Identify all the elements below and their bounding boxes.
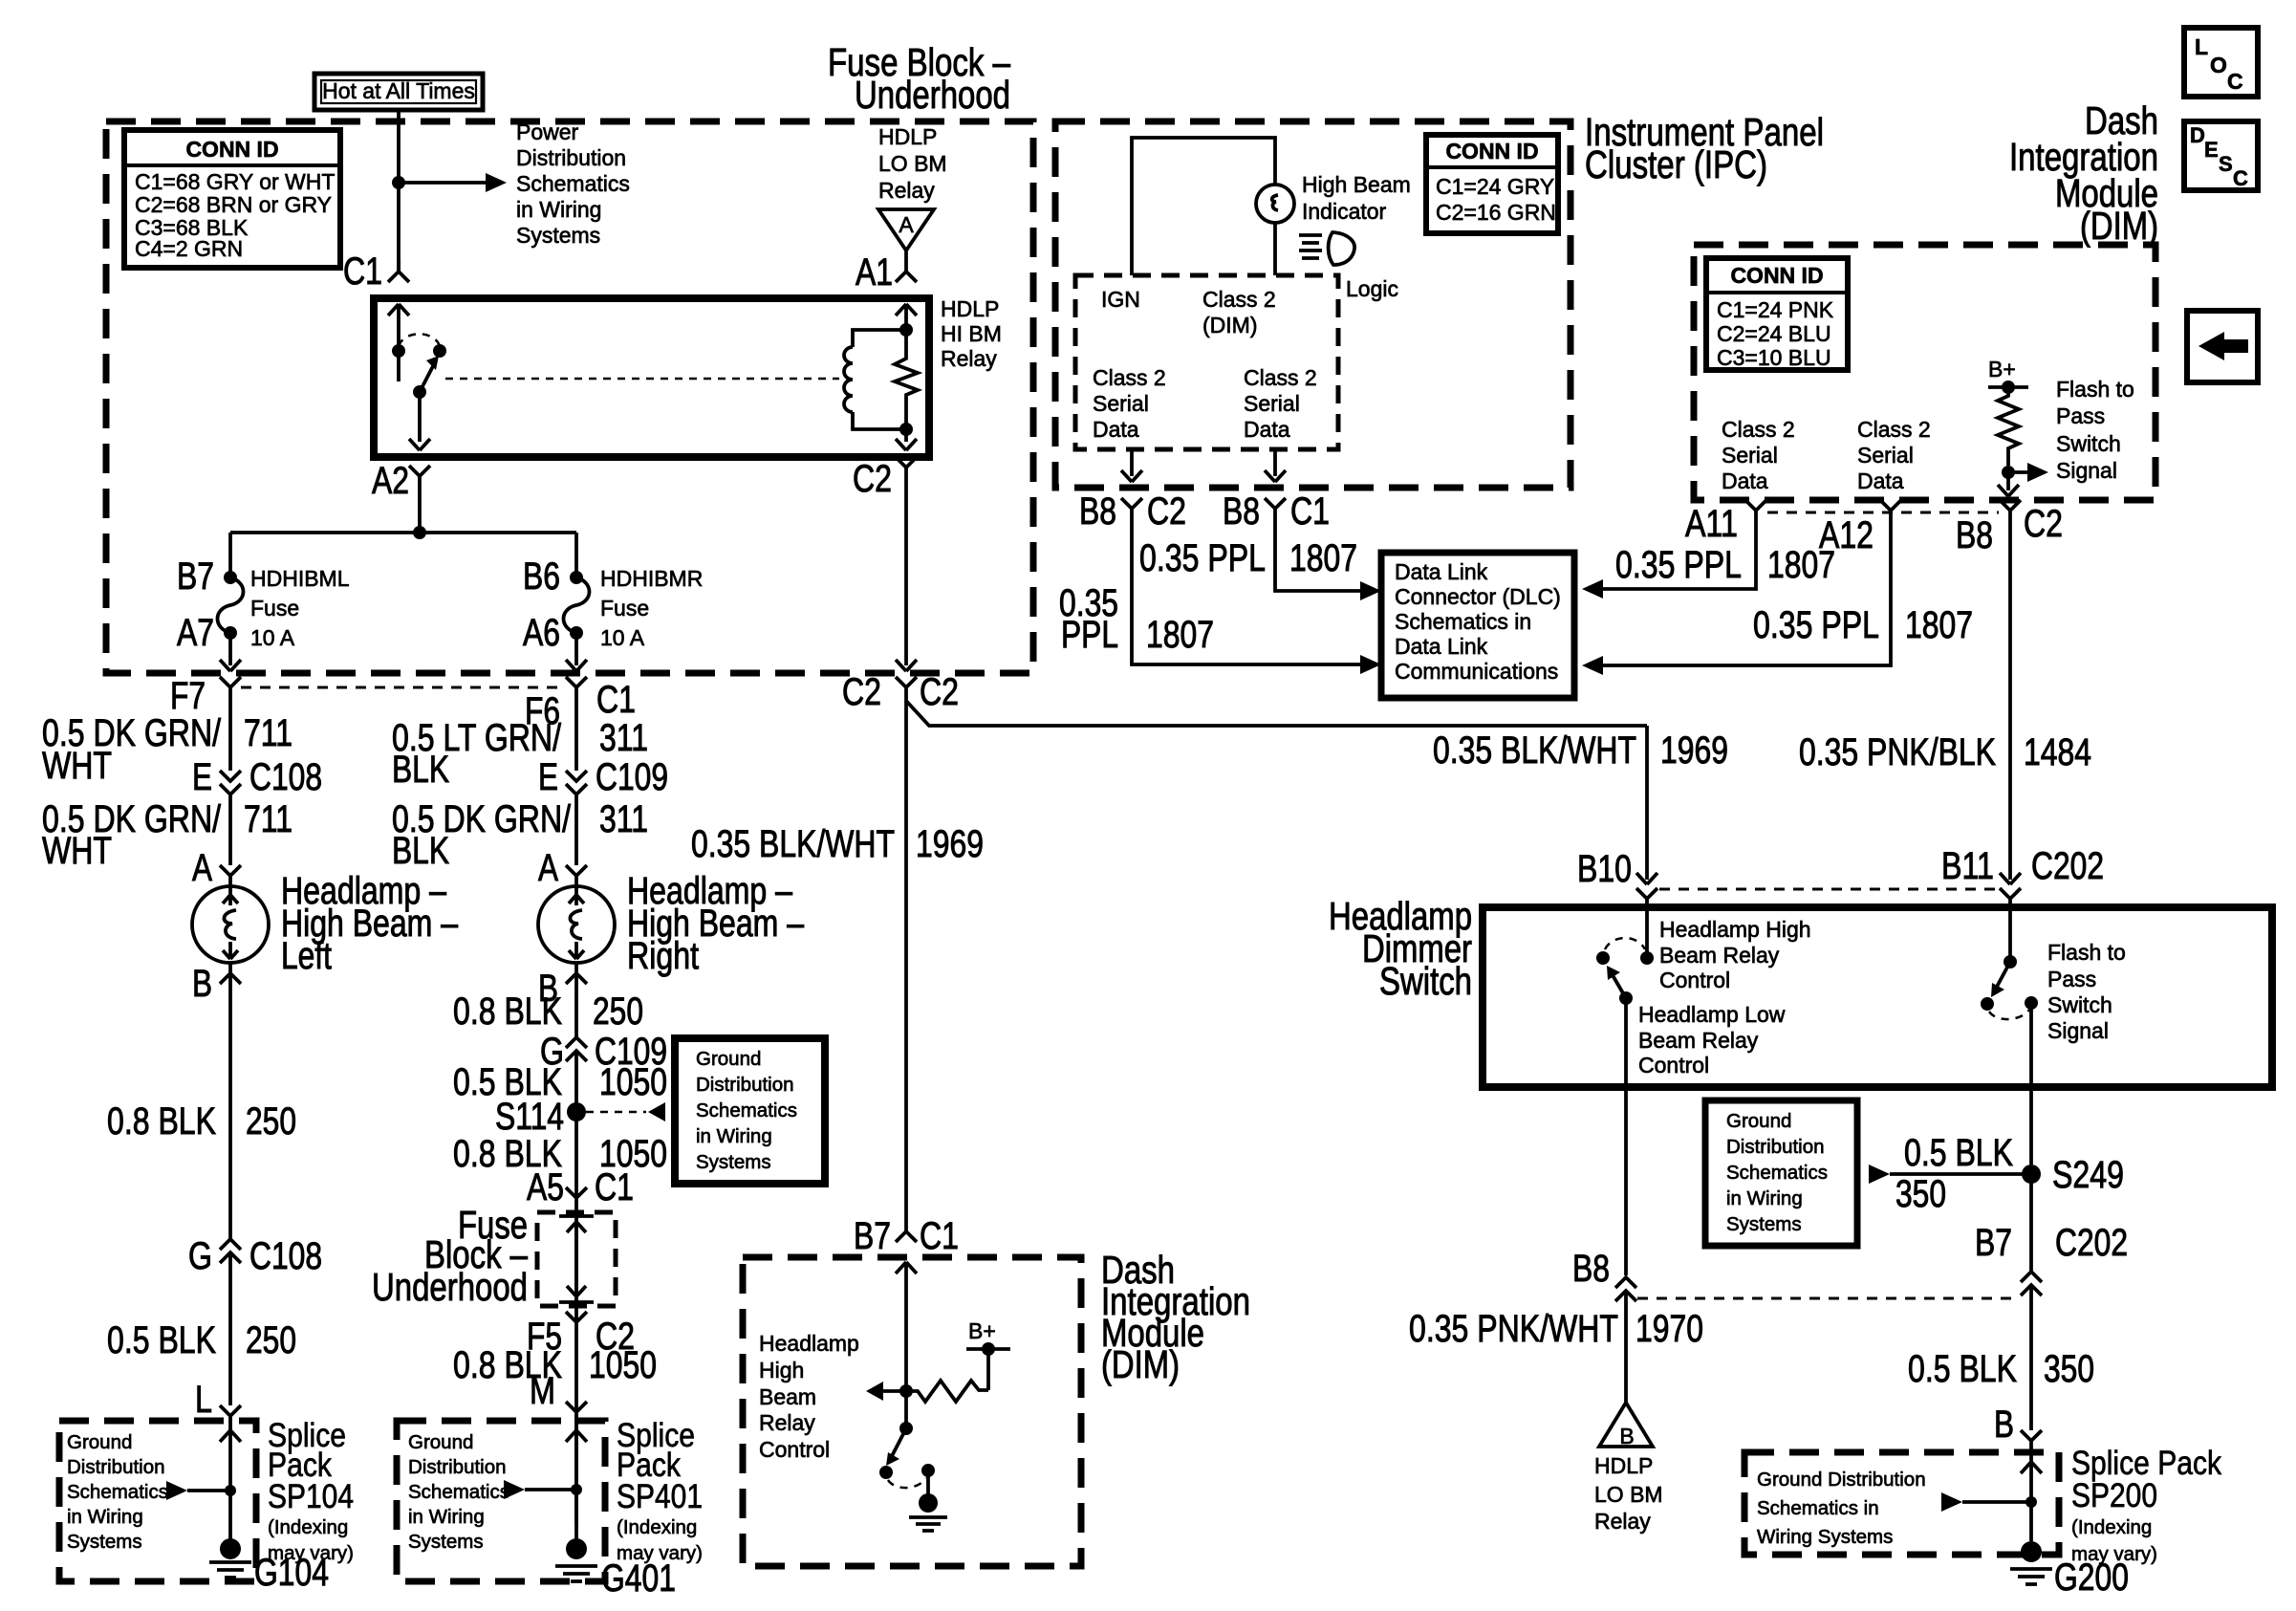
wire down to fuse HDHIBML: [228, 533, 232, 577]
internal ground (DIM): [919, 1493, 938, 1513]
fuse HDHIBMR top dot B6: [570, 571, 583, 584]
svg-text:BLK: BLK: [392, 749, 449, 791]
svg-text:(Indexing: (Indexing: [2071, 1516, 2152, 1538]
svg-text:SP200: SP200: [2071, 1477, 2157, 1514]
svg-text:Left: Left: [281, 935, 332, 977]
svg-text:Class 2: Class 2: [1202, 287, 1276, 312]
resistor flash-to-pass: [1998, 387, 2019, 466]
svg-text:Schematics: Schematics: [408, 1481, 509, 1503]
svg-text:Distribution: Distribution: [67, 1456, 165, 1478]
svg-text:Fuse: Fuse: [600, 596, 649, 620]
svg-text:Communications: Communications: [1395, 659, 1558, 684]
icon high beam symbol: [1299, 235, 1322, 258]
dashed link S114 to reference box: [586, 1111, 646, 1114]
svg-text:Relay: Relay: [941, 346, 997, 371]
connector fork A2: [409, 466, 430, 533]
switch arm (DIM): [892, 1428, 906, 1456]
wire from Hot at All Times down to relay C1: [397, 108, 401, 272]
flash-to-pass right contact dot: [2025, 996, 2038, 1010]
dimmer high-beam contact wire: [1645, 907, 1649, 958]
module box Dash Integration Module bottom (dashed): [743, 1257, 1081, 1566]
fuse feed junction dot: [413, 526, 426, 539]
svg-text:350: 350: [2044, 1348, 2094, 1390]
connector fork B11: [2000, 873, 2021, 907]
svg-text:Logic: Logic: [1346, 276, 1398, 301]
svg-text:BLK: BLK: [392, 830, 449, 872]
splice junction dot SP200: [2025, 1496, 2037, 1508]
switch pivot dot (DIM): [899, 1422, 913, 1435]
svg-text:0.8 BLK: 0.8 BLK: [453, 991, 562, 1033]
svg-text:0.35 PPL: 0.35 PPL: [1615, 544, 1742, 586]
wire into splice pack SP401: [566, 1421, 587, 1549]
junction dot on control wire: [899, 1384, 913, 1398]
svg-text:C4=2 GRN: C4=2 GRN: [135, 236, 243, 261]
svg-text:(Indexing: (Indexing: [617, 1516, 697, 1538]
svg-text:Connector (DLC): Connector (DLC): [1395, 584, 1561, 609]
svg-text:C1: C1: [595, 1166, 634, 1208]
wire fuse HDHIBML to border: [220, 633, 241, 671]
dimmer left contact dot: [1596, 951, 1610, 965]
svg-text:Serial: Serial: [1857, 443, 1914, 468]
svg-text:SP104: SP104: [268, 1478, 354, 1515]
connector fork A (right): [566, 865, 587, 886]
svg-text:0.35 BLK/WHT: 0.35 BLK/WHT: [691, 823, 895, 865]
svg-text:1970: 1970: [1635, 1308, 1703, 1350]
wire bulb to Class 2 pin: [1273, 223, 1277, 275]
svg-text:C109: C109: [596, 756, 668, 798]
svg-text:Beam Relay: Beam Relay: [1638, 1028, 1759, 1053]
svg-text:Ground: Ground: [408, 1431, 473, 1453]
off-page triangle B HDLP LO BM Relay: [1599, 1403, 1653, 1447]
svg-text:Ground: Ground: [67, 1431, 132, 1453]
fuse HDHIBMR bottom dot A6: [570, 626, 583, 640]
svg-text:10 A: 10 A: [600, 625, 645, 650]
wire B down to C108 (ground side): [228, 973, 232, 1239]
svg-text:C: C: [2233, 166, 2248, 190]
svg-text:M: M: [530, 1370, 555, 1412]
connector fork F6: [566, 677, 587, 701]
connector fork B: [220, 963, 241, 984]
connector table CONN ID (fuse block): [124, 130, 340, 268]
svg-text:Data: Data: [1244, 417, 1290, 442]
svg-text:may vary): may vary): [617, 1542, 703, 1564]
svg-text:Flash to: Flash to: [2047, 940, 2126, 965]
svg-text:Schematics: Schematics: [696, 1099, 797, 1121]
svg-text:B8: B8: [1956, 514, 1993, 556]
svg-text:C2: C2: [1147, 490, 1186, 533]
svg-text:10 A: 10 A: [250, 625, 295, 650]
label box Hot at All Times: [314, 74, 483, 110]
wire to switch pivot: [904, 1391, 908, 1428]
svg-text:Pass: Pass: [2056, 403, 2105, 428]
svg-text:C202: C202: [2031, 845, 2104, 887]
relay switch movable arm: [420, 364, 434, 392]
wire into splice pack SP104: [220, 1421, 241, 1549]
component box HDLP HI BM Relay: [374, 298, 929, 457]
svg-text:Systems: Systems: [516, 223, 600, 248]
svg-text:C2: C2: [842, 671, 881, 713]
in-line connector C202 (B7): [2021, 1272, 2042, 1430]
svg-text:Headlamp: Headlamp: [759, 1331, 859, 1356]
connector fork A12: [1880, 500, 1901, 524]
svg-text:CONN ID: CONN ID: [1445, 139, 1538, 163]
svg-text:may vary): may vary): [2071, 1543, 2157, 1565]
svg-text:C2: C2: [2024, 503, 2063, 545]
svg-text:Schematics in: Schematics in: [1757, 1497, 1879, 1519]
connector fork A11: [1745, 500, 1766, 524]
component box Headlamp Dimmer Switch: [1483, 907, 2272, 1087]
relay switch output wire to A2: [409, 392, 430, 450]
svg-text:Relay: Relay: [878, 178, 935, 203]
wire B down to C109 ground side: [574, 973, 578, 1037]
svg-text:Cluster (IPC): Cluster (IPC): [1585, 142, 1767, 186]
dimmer dashed arc: [1605, 938, 1645, 949]
svg-text:L: L: [2195, 34, 2208, 59]
svg-text:F7: F7: [170, 675, 206, 717]
svg-text:311: 311: [599, 717, 648, 759]
svg-text:High: High: [759, 1358, 804, 1382]
flash-to-pass arm: [1997, 962, 2010, 987]
svg-text:Control: Control: [759, 1437, 830, 1462]
reference box Ground Distribution SP104 (dashed): [59, 1421, 256, 1581]
reference box Ground Distribution (S114): [675, 1038, 825, 1184]
in-line connector C202 (B8): [1615, 1277, 1636, 1403]
svg-text:Hot at All Times: Hot at All Times: [322, 78, 475, 103]
svg-text:0.5 BLK: 0.5 BLK: [107, 1319, 216, 1361]
svg-text:Data Link: Data Link: [1395, 559, 1488, 584]
svg-text:Switch: Switch: [2056, 431, 2121, 456]
svg-text:E: E: [192, 756, 212, 798]
svg-text:LO BM: LO BM: [1594, 1482, 1663, 1507]
in-line connector C109 (G): [566, 1037, 587, 1523]
svg-text:Right: Right: [627, 935, 699, 977]
svg-text:A: A: [192, 847, 212, 889]
svg-text:0.5 BLK: 0.5 BLK: [1908, 1348, 2017, 1390]
svg-text:Headlamp High: Headlamp High: [1659, 917, 1811, 942]
svg-text:B8: B8: [1079, 490, 1116, 533]
wire into DIM with up arrow: [896, 1262, 917, 1391]
connector fork C2 (DIM): [2000, 500, 2021, 524]
svg-text:C1: C1: [1290, 490, 1330, 533]
svg-text:Fuse: Fuse: [250, 596, 299, 620]
connector dashed line C202 (dimmer top): [1659, 888, 1998, 891]
svg-text:HDLP: HDLP: [878, 124, 937, 149]
relay coil resistor: [895, 330, 918, 429]
relay coil top dot: [899, 323, 913, 337]
svg-text:C108: C108: [249, 1235, 322, 1277]
svg-text:(DIM): (DIM): [2080, 204, 2158, 248]
relay switch fixed contact dot (left): [392, 344, 405, 358]
svg-text:B+: B+: [968, 1318, 996, 1343]
relay coil parallel loop: [853, 330, 906, 429]
reference box Ground Distribution SP401 (dashed): [397, 1421, 605, 1581]
wire arrow to Power Distribution reference: [399, 181, 493, 185]
icon box LOC: [2184, 28, 2258, 97]
svg-text:1969: 1969: [1660, 729, 1728, 772]
svg-text:Headlamp Low: Headlamp Low: [1638, 1002, 1786, 1027]
connector fork F7: [220, 677, 241, 701]
svg-text:E: E: [538, 756, 558, 798]
svg-text:WHT: WHT: [42, 830, 112, 872]
svg-text:B7: B7: [854, 1215, 891, 1257]
svg-text:Ground Distribution: Ground Distribution: [1757, 1469, 1926, 1491]
connector fork A: [220, 865, 241, 886]
svg-text:Schematics: Schematics: [516, 171, 630, 196]
svg-text:B11: B11: [1941, 845, 1994, 887]
svg-text:B8: B8: [1223, 490, 1260, 533]
svg-text:C2=24 BLU: C2=24 BLU: [1717, 321, 1831, 346]
svg-text:WHT: WHT: [42, 745, 112, 787]
svg-text:C2=68 BRN or GRY: C2=68 BRN or GRY: [135, 192, 332, 217]
relay coil bumps: [844, 347, 853, 412]
svg-text:Wiring Systems: Wiring Systems: [1757, 1526, 1893, 1548]
relay switch pivot dot: [413, 385, 426, 399]
svg-text:C1: C1: [596, 679, 636, 721]
svg-text:711: 711: [244, 712, 292, 754]
relay switch input arrow (C1 side): [388, 304, 409, 381]
svg-text:(Indexing: (Indexing: [268, 1516, 348, 1538]
fuse HDHIBMR element: [564, 577, 590, 633]
svg-text:B6: B6: [523, 555, 560, 598]
flash-to-pass input wire: [2008, 907, 2012, 962]
svg-text:HDLP: HDLP: [941, 296, 999, 321]
svg-text:1484: 1484: [2024, 731, 2091, 773]
svg-text:Relay: Relay: [1594, 1509, 1651, 1534]
module box Fuse Block Underhood (dashed): [106, 121, 1033, 673]
svg-text:O: O: [2210, 53, 2227, 77]
svg-text:Distribution: Distribution: [408, 1456, 507, 1478]
reference box Splice Pack SP200 (dashed): [1744, 1452, 2059, 1555]
wire fuse feed horizontal: [230, 531, 576, 534]
module box Instrument Panel Cluster (dashed): [1055, 121, 1570, 488]
svg-text:A2: A2: [372, 460, 409, 502]
flash-to-pass pivot dot: [2004, 955, 2017, 969]
pass-through box Fuse Block Underhood (small, dashed): [537, 1212, 616, 1306]
svg-text:Systems: Systems: [67, 1531, 142, 1553]
svg-text:C108: C108: [249, 756, 322, 798]
svg-text:Serial: Serial: [1722, 443, 1778, 468]
svg-text:711: 711: [244, 798, 292, 840]
wire flash-to-pass to border: [1998, 472, 2019, 496]
connector dashed line C202 (lower): [1637, 1297, 2020, 1300]
svg-text:1807: 1807: [1767, 544, 1835, 586]
svg-text:Data Link: Data Link: [1395, 634, 1488, 659]
relay coil input arrow (A1 side): [896, 304, 917, 330]
reference box Data Link Connector (DLC): [1381, 553, 1574, 698]
svg-text:S: S: [2219, 152, 2233, 176]
off-page arrow into SP104 splice: [166, 1481, 187, 1500]
svg-text:G: G: [188, 1235, 212, 1277]
high beam indicator bulb: [1256, 185, 1294, 223]
fuse HDHIBML bottom dot A7: [224, 626, 237, 640]
arrow right flash-to-pass: [2008, 470, 2037, 474]
arrow out left: [874, 1389, 906, 1393]
svg-text:1969: 1969: [916, 823, 984, 865]
svg-text:(DIM): (DIM): [1202, 313, 1257, 337]
svg-text:SP401: SP401: [617, 1478, 703, 1515]
relay switch dashed arc between contacts: [399, 334, 440, 346]
svg-text:Data: Data: [1722, 468, 1768, 493]
in-line connector C108 (E): [220, 771, 241, 865]
svg-text:E: E: [2204, 138, 2219, 162]
svg-text:D: D: [2190, 123, 2205, 147]
svg-text:C202: C202: [2055, 1222, 2128, 1264]
wire S249 down to C202: [2029, 1174, 2033, 1272]
svg-text:HDHIBMR: HDHIBMR: [600, 566, 703, 591]
svg-text:Ground: Ground: [1726, 1110, 1791, 1132]
connector fork C2 below relay: [896, 457, 917, 468]
svg-text:0.8 BLK: 0.8 BLK: [107, 1100, 216, 1143]
ground G401: [566, 1538, 587, 1559]
svg-text:Schematics: Schematics: [1726, 1162, 1828, 1184]
connector fork L: [220, 1405, 241, 1421]
svg-text:S114: S114: [495, 1096, 564, 1138]
relay switch NO contact dot (right): [433, 344, 446, 358]
connector fork C1: [388, 258, 409, 282]
svg-text:C1=24 GRY: C1=24 GRY: [1436, 174, 1554, 199]
svg-text:Systems: Systems: [1726, 1213, 1802, 1235]
dimmer switch pivot dot: [1619, 991, 1633, 1005]
svg-text:1050: 1050: [589, 1344, 657, 1386]
svg-text:311: 311: [599, 798, 648, 840]
svg-text:HDLP: HDLP: [1594, 1453, 1653, 1478]
svg-text:A7: A7: [177, 612, 214, 654]
svg-text:Schematics: Schematics: [67, 1481, 168, 1503]
svg-text:L: L: [195, 1379, 212, 1421]
svg-text:CONN ID: CONN ID: [1730, 263, 1823, 288]
headlamp bulb Headlamp High Beam Right: [538, 886, 615, 963]
svg-text:Data: Data: [1857, 468, 1904, 493]
flash-to-pass dashed arc: [1989, 1010, 2029, 1019]
relay coil bottom dot: [899, 423, 913, 436]
wire IPC serial data left to border: [1121, 449, 1142, 482]
svg-text:0.35 PPL: 0.35 PPL: [1139, 537, 1266, 579]
svg-text:Systems: Systems: [408, 1531, 484, 1553]
reference box Ground Distribution (S249): [1705, 1100, 1857, 1246]
svg-text:S249: S249: [2052, 1154, 2124, 1196]
splice S114 dot: [567, 1102, 586, 1121]
svg-text:may vary): may vary): [268, 1542, 354, 1564]
svg-text:B10: B10: [1577, 848, 1632, 890]
svg-text:250: 250: [246, 1100, 296, 1143]
svg-text:C2: C2: [853, 458, 892, 500]
connector fork A1: [896, 272, 917, 282]
svg-text:CONN ID: CONN ID: [185, 137, 278, 162]
splice S249 dot: [2022, 1165, 2041, 1184]
svg-text:Distribution: Distribution: [696, 1074, 794, 1096]
svg-text:B: B: [192, 963, 212, 1005]
relay actuation dashed link: [445, 378, 839, 381]
svg-text:A: A: [899, 212, 914, 237]
dimmer fixed contact dot (high beam): [1640, 951, 1654, 965]
svg-text:Flash to: Flash to: [2056, 377, 2134, 402]
svg-text:C1: C1: [343, 250, 382, 293]
svg-text:C2=16 GRN: C2=16 GRN: [1436, 200, 1556, 225]
svg-text:B7: B7: [177, 555, 214, 598]
svg-text:1807: 1807: [1146, 614, 1214, 656]
svg-text:Systems: Systems: [696, 1151, 771, 1173]
svg-text:0.5 BLK: 0.5 BLK: [1904, 1132, 2013, 1174]
svg-text:350: 350: [1895, 1173, 1946, 1215]
svg-text:Serial: Serial: [1093, 391, 1149, 416]
ground G200: [2021, 1541, 2042, 1562]
svg-text:C1=68 GRY or WHT: C1=68 GRY or WHT: [135, 169, 335, 194]
connector dashed line C1 (F7-F6): [241, 686, 566, 689]
svg-text:1807: 1807: [1905, 604, 1973, 646]
connector fork B (SP200): [2021, 1430, 2042, 1452]
svg-text:B+: B+: [1988, 357, 2016, 381]
junction dot flash-to-pass: [2002, 466, 2015, 479]
svg-text:Beam: Beam: [759, 1384, 816, 1409]
svg-text:Class 2: Class 2: [1093, 365, 1166, 390]
svg-text:C1=24 PNK: C1=24 PNK: [1717, 297, 1834, 322]
flash-to-pass left contact dot: [1981, 997, 1994, 1011]
svg-text:A1: A1: [856, 251, 893, 294]
wire to internal ground: [926, 1470, 930, 1495]
connector fork B8/C2 (IPC): [1121, 498, 1142, 521]
svg-text:1807: 1807: [1289, 537, 1357, 579]
switch left contact dot: [879, 1466, 893, 1479]
svg-text:0.35 PPL: 0.35 PPL: [1753, 604, 1879, 646]
junction dot on feed wire: [392, 176, 405, 189]
svg-text:1050: 1050: [599, 1061, 667, 1103]
fuse HDHIBML element: [218, 577, 244, 633]
svg-text:Distribution: Distribution: [516, 145, 626, 170]
svg-text:B7: B7: [1975, 1222, 2012, 1264]
svg-text:Power: Power: [516, 120, 579, 144]
connector fork F5: [566, 1312, 587, 1322]
svg-text:Signal: Signal: [2056, 458, 2117, 483]
svg-text:Pass: Pass: [2047, 967, 2096, 991]
svg-text:Class 2: Class 2: [1722, 417, 1795, 442]
connector fork M: [566, 1402, 587, 1421]
svg-text:Beam Relay: Beam Relay: [1659, 943, 1780, 968]
svg-text:0.35 PNK/BLK: 0.35 PNK/BLK: [1799, 731, 1996, 773]
dimmer switch arm: [1613, 975, 1626, 998]
switch dashed arc (DIM): [888, 1478, 926, 1488]
off-page arrow into SP401 splice: [504, 1480, 525, 1499]
wire relay C2 output to border: [896, 468, 917, 671]
svg-text:Indicator: Indicator: [1302, 199, 1387, 224]
svg-text:Ground: Ground: [696, 1048, 761, 1070]
dimmer low-beam output wire: [1624, 998, 1628, 1275]
wire IPC C2 to DLC: [1132, 521, 1374, 664]
splice junction dot SP401: [571, 1484, 582, 1495]
wire IPC C1 to DLC: [1275, 521, 1374, 591]
svg-text:Relay: Relay: [759, 1410, 815, 1435]
wire B+ down: [986, 1349, 990, 1390]
headlamp bulb Headlamp High Beam Left: [192, 886, 269, 963]
svg-text:in Wiring: in Wiring: [516, 197, 601, 222]
wire branch diagonal to dimmer feed: [906, 701, 1647, 726]
wire F6 to C109: [574, 701, 578, 771]
svg-text:B: B: [1619, 1424, 1634, 1448]
svg-text:0.35 BLK/WHT: 0.35 BLK/WHT: [1433, 729, 1636, 772]
flash-to-pass output wire: [2029, 1003, 2033, 1165]
svg-text:C2: C2: [920, 671, 959, 713]
connector fork B8/C1 (IPC): [1265, 498, 1286, 521]
svg-text:A11: A11: [1685, 503, 1738, 545]
svg-text:High Beam: High Beam: [1302, 172, 1411, 197]
svg-text:Control: Control: [1638, 1053, 1709, 1078]
svg-text:PPL: PPL: [1061, 614, 1118, 656]
svg-text:in Wiring: in Wiring: [408, 1506, 485, 1528]
connector dashed line C202/C2 (DIM bottom): [1767, 512, 1999, 514]
svg-text:C1: C1: [920, 1215, 959, 1257]
off-page arrow into SP200 splice: [1941, 1492, 1962, 1512]
pass-through wire with arrows: [559, 1216, 594, 1302]
svg-text:IGN: IGN: [1101, 287, 1140, 312]
